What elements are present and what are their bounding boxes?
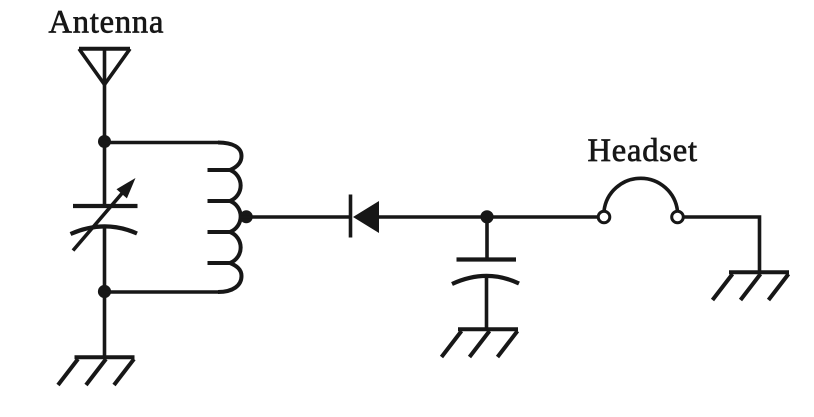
ground (right) (713, 272, 790, 300)
svg-text:Antenna: Antenna (49, 5, 165, 41)
node junction antenna / coil top (98, 135, 111, 148)
variable capacitor C1 (71, 178, 138, 251)
wire junction down to capacitor (485, 217, 489, 260)
node junction bottom left (98, 285, 111, 298)
svg-text:Headset: Headset (588, 133, 698, 169)
wire headset to right corner and down (684, 217, 760, 272)
wire capacitor to middle ground (485, 275, 489, 329)
wire bottom junction to coil bottom (105, 290, 219, 294)
capacitor C2 (452, 260, 519, 285)
node junction diode / capacitor (480, 210, 493, 223)
wire junction to coil top (105, 141, 219, 145)
node coil tap (240, 210, 253, 223)
ground (left) (58, 357, 135, 385)
antenna (79, 49, 130, 85)
wire coil tap to diode (241, 215, 350, 219)
ground (middle) (442, 329, 519, 357)
wire diode to middle junction (379, 215, 598, 219)
wire variable capacitor to bottom junction (103, 225, 107, 357)
headset earphones (598, 178, 683, 223)
wire antenna lead down to variable capacitor (103, 84, 107, 206)
diode D1 (351, 195, 380, 238)
inductor L1 coil (208, 143, 242, 293)
